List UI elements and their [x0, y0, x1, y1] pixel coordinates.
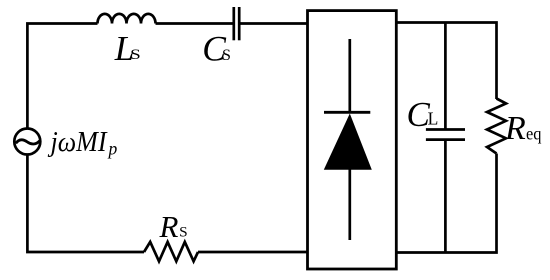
- svg-text:R: R: [504, 110, 526, 147]
- svg-text:S: S: [130, 47, 141, 63]
- svg-text:L: L: [428, 109, 439, 129]
- label CL: [407, 95, 439, 134]
- svg-text:S: S: [222, 47, 231, 64]
- wire rectifier top-right to Req top: [396, 23, 496, 100]
- wire RS to rectifier bottom-left: [198, 251, 308, 254]
- wire between LS and CS: [156, 22, 234, 25]
- svg-text:S: S: [179, 225, 188, 241]
- wire CL bottom lead: [444, 140, 447, 253]
- wire top-left horizontal: [27, 24, 97, 129]
- wire CS to rectifier: [239, 22, 307, 25]
- svg-text:p: p: [107, 138, 118, 158]
- voltage source V1: [14, 129, 40, 155]
- label CS: [202, 29, 231, 69]
- resistor Req: [487, 99, 506, 154]
- svg-text:R: R: [159, 209, 179, 244]
- capacitor CS: [234, 7, 239, 40]
- label Req: [504, 110, 542, 147]
- resistor RS: [144, 242, 198, 261]
- label LS: [114, 29, 141, 68]
- label jwMIp: [47, 126, 118, 158]
- svg-text:eq: eq: [526, 124, 542, 144]
- inductor LS: [98, 14, 156, 24]
- capacitor CL: [426, 130, 465, 140]
- label RS: [159, 209, 188, 244]
- wire Req bottom lead and bottom-right bus: [396, 154, 496, 253]
- wire CL top lead: [444, 23, 447, 131]
- diode D1: [324, 39, 372, 240]
- svg-text:jωMI: jωMI: [47, 126, 108, 158]
- rectifier bridge block: [308, 11, 397, 269]
- wire source bottom to bottom-left corner: [27, 155, 144, 253]
